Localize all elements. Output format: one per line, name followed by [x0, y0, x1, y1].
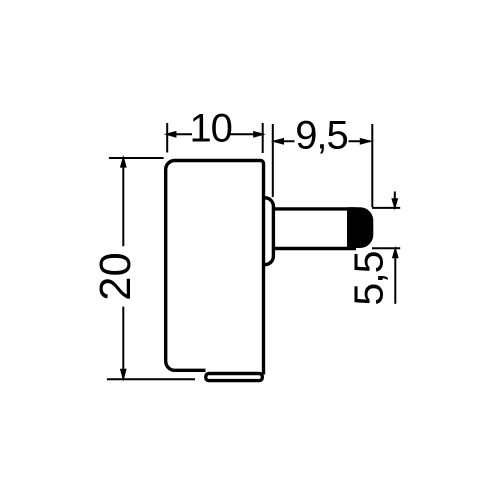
dim 5,5: upper arrow shaft	[394, 192, 396, 200]
plug body	[166, 161, 264, 375]
dim 20: bottom arrowhead	[120, 369, 127, 382]
dim 20: dimension line upper segment	[122, 157, 124, 246]
dim 5,5: bottom extension line	[372, 247, 400, 249]
bottom tab of body	[206, 374, 262, 381]
dim 5,5: top extension line	[372, 207, 400, 209]
dim 9,5: left arrowhead	[271, 138, 284, 145]
dim 9,5: left extension line	[272, 124, 274, 197]
black plug tip	[347, 207, 373, 248]
dim 10: left extension line	[166, 123, 168, 153]
dim 10: dimension line left segment	[167, 133, 192, 135]
dim 10: dimension line right segment	[230, 133, 263, 135]
dim 10: right extension line	[262, 123, 264, 153]
dim 9,5: right arrowhead	[360, 138, 373, 145]
dim 10: right arrowhead	[253, 131, 266, 138]
dim 5,5: upper arrowhead pointing down	[391, 198, 398, 210]
barrel bottom line	[273, 247, 356, 250]
dim 9,5: dimension line left segment	[274, 140, 294, 142]
dim 5,5: lower arrow shaft	[394, 257, 396, 304]
dim 20: top arrowhead	[120, 155, 127, 168]
svg-text:20: 20	[92, 252, 140, 300]
dim 10: left arrowhead	[164, 131, 177, 138]
collar flange of plug	[263, 198, 273, 265]
dim 5,5: lower arrowhead pointing up	[392, 246, 399, 258]
dim 9,5: right extension line	[371, 124, 373, 207]
svg-text:5,5: 5,5	[346, 251, 392, 305]
svg-text:9,5: 9,5	[295, 114, 348, 158]
barrel top line	[273, 207, 356, 210]
dim 20: bottom extension line	[107, 378, 195, 380]
dim 20: top extension line	[109, 157, 164, 159]
svg-text:10: 10	[189, 107, 232, 151]
dim 20: dimension line lower segment	[122, 307, 124, 379]
dim 9,5: dimension line right segment	[349, 140, 371, 142]
